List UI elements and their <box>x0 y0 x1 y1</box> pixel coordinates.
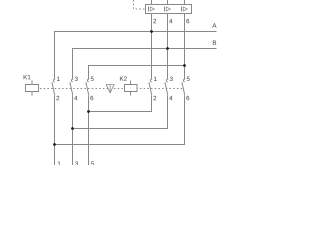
label: box pin 4 <box>169 19 172 23</box>
contact K2 1-2 <box>149 79 152 95</box>
label: K2 contact pin 3 <box>170 77 173 81</box>
coil K1 <box>26 81 39 96</box>
label: K2 contact pin 5 <box>187 77 190 81</box>
interlock triangle <box>106 85 114 93</box>
overcurrent symbol I> pole 2 <box>165 7 171 12</box>
wire: K2 pin 2 to K1 pin 6 crossover <box>89 96 152 112</box>
wire: K1 pin 2 down to bottom edge <box>54 96 56 166</box>
wire: box pin 1 stub top <box>151 0 153 5</box>
wire: net C horizontal to K2 column <box>89 66 185 80</box>
node: junction net A / phase 1 <box>150 30 153 33</box>
wire: K1 pin 6 down to bottom edge <box>88 96 90 166</box>
contact K2 3-4 <box>165 79 168 95</box>
label: K1 contact pin 1 <box>57 77 60 81</box>
label: net A <box>212 23 216 27</box>
label: K2 contact pin 1 <box>154 77 157 81</box>
overcurrent symbol I> pole 1 <box>149 7 155 12</box>
label: bottom terminal 3 <box>75 161 78 165</box>
wire: net B horizontal <box>73 49 217 80</box>
node: junction net B / phase 2 <box>166 47 169 50</box>
contact K1 3-4 <box>70 79 73 95</box>
label: K2 contact pin 4 <box>169 96 172 100</box>
label: K2 contact pin 2 <box>153 96 156 100</box>
label: K1 contact pin 2 <box>56 96 59 100</box>
coil K2 <box>125 81 138 96</box>
wire: box pin 6 down to K2 contact 5 <box>184 14 186 80</box>
label: box pin 2 <box>153 19 156 23</box>
label: K1 contact pin 3 <box>75 77 78 81</box>
wire: box pin 5 stub top <box>184 0 186 5</box>
node: junction K1 pin 4 column <box>71 127 74 130</box>
breaker Q1 box <box>146 5 192 14</box>
wire: box pin 4 down to K2 contact 3 <box>167 14 169 80</box>
label: K1 contact pin 6 <box>90 96 93 100</box>
wire: K2 pin 4 to K1 pin 4 <box>73 96 168 129</box>
wire: box pin 2 down to K2 contact 1 <box>151 14 153 80</box>
label: K1 contact pin 5 <box>91 77 94 81</box>
wire: dashed linkage from top edge to breaker box <box>134 0 146 9</box>
wire: mechanical linkage dashed K1 to K2 <box>40 88 183 90</box>
contact K1 1-2 <box>52 79 55 95</box>
wire: K1 pin 4 down to bottom edge <box>72 96 74 166</box>
wire: box pin 3 stub top <box>167 0 169 5</box>
overcurrent symbol I> pole 3 <box>182 7 188 12</box>
label: box pin 6 <box>186 19 189 23</box>
label: K1 <box>24 75 31 79</box>
label: bottom terminal 1 <box>58 161 61 165</box>
label: K1 contact pin 4 <box>74 96 77 100</box>
node: junction K1 pin 2 column <box>53 143 56 146</box>
label: net B <box>213 40 216 44</box>
label: bottom terminal 5 <box>91 161 94 165</box>
contact K2 5-6 <box>182 79 185 95</box>
label: K2 contact pin 6 <box>186 96 189 100</box>
wire: K2 pin 6 to K1 pin 2 crossover <box>55 96 185 145</box>
node: junction K1 pin 6 column <box>87 110 90 113</box>
wire: net A horizontal <box>55 32 217 80</box>
label: K2 <box>120 76 127 80</box>
contact K1 5-6 <box>86 79 89 95</box>
node: junction net C / phase 3 <box>183 64 186 67</box>
